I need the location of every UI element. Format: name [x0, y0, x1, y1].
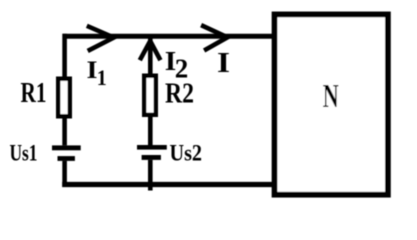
svg-text:Us1: Us1 [10, 140, 38, 165]
svg-text:N: N [323, 78, 339, 115]
svg-text:1: 1 [97, 65, 107, 90]
svg-text:R1: R1 [21, 78, 47, 109]
svg-text:2: 2 [175, 54, 189, 84]
svg-text:Us2: Us2 [170, 140, 203, 165]
svg-text:I: I [217, 48, 230, 79]
